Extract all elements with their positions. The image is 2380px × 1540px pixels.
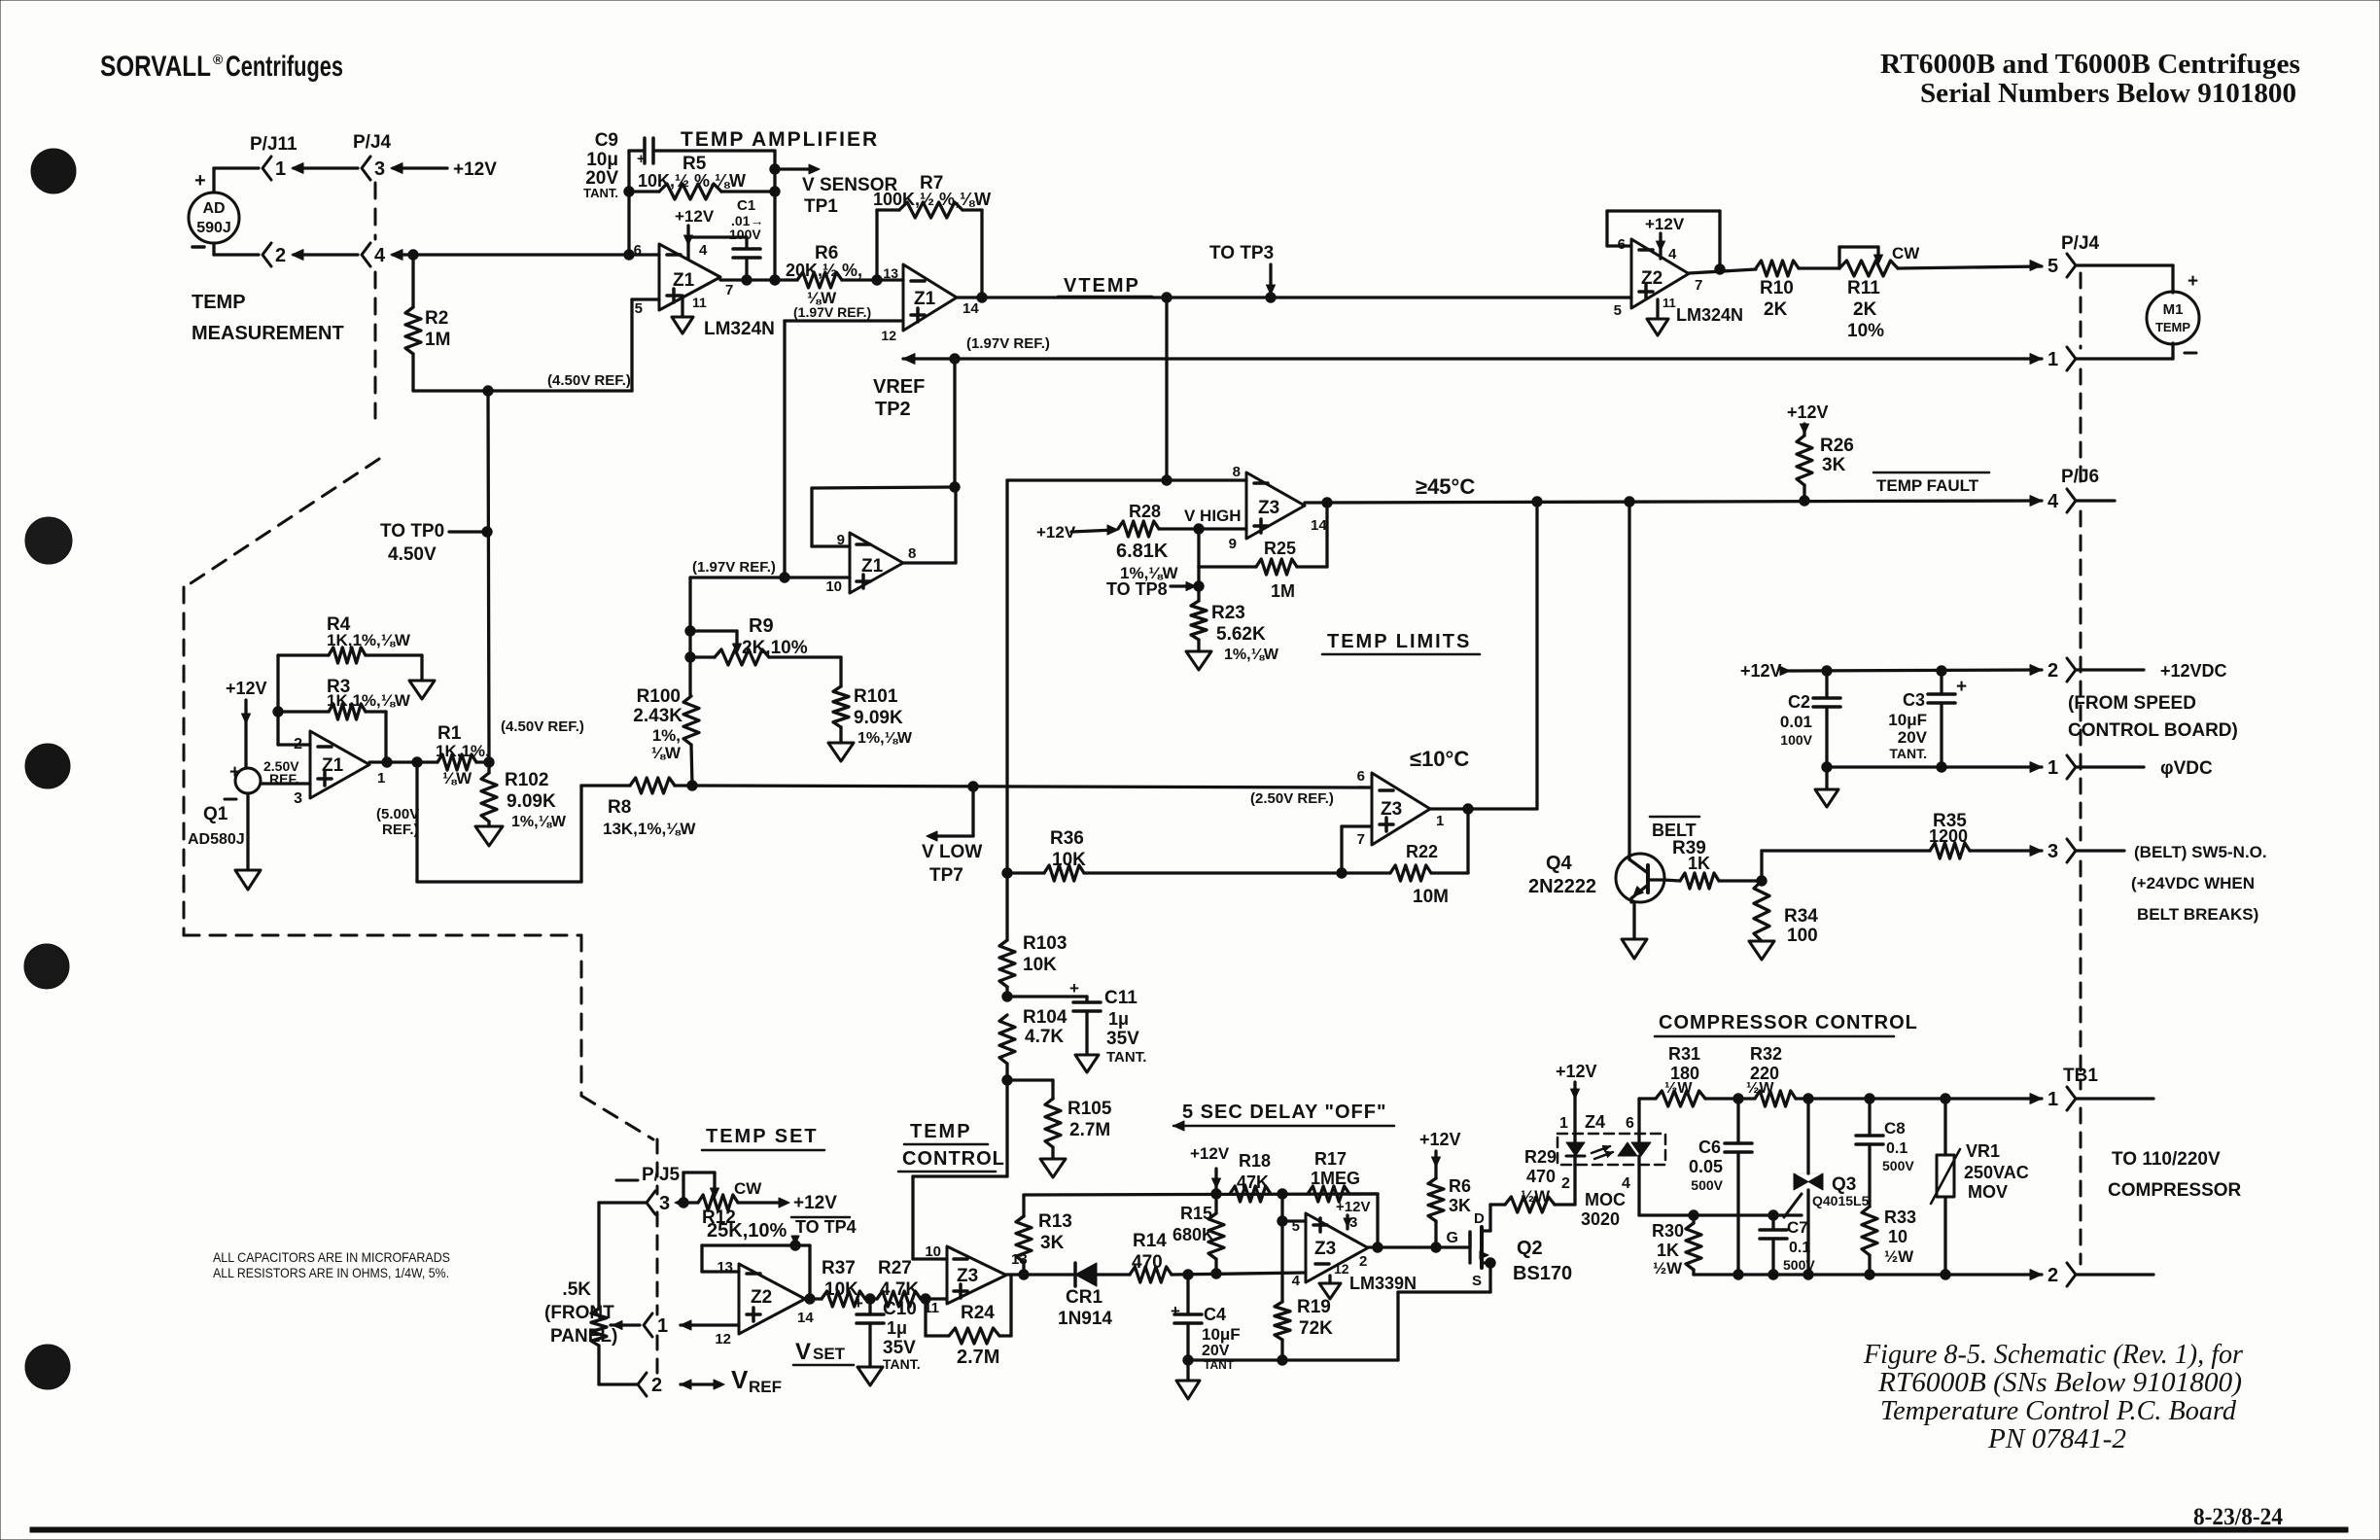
svg-text:1M: 1M	[425, 330, 450, 350]
svg-text:20K,½ %,: 20K,½ %,	[786, 261, 862, 280]
svg-text:1: 1	[2047, 757, 2058, 779]
wire Z1d pin10 1.97 input	[690, 576, 850, 578]
svg-text:1M: 1M	[1271, 581, 1295, 601]
svg-text:2N2222: 2N2222	[1528, 876, 1596, 897]
svg-text:TEMP: TEMP	[2155, 320, 2190, 334]
wire Z3b pin7 feedback	[1342, 824, 1372, 827]
svg-text:CW: CW	[1892, 244, 1920, 262]
label TEMP FAULT overlined	[1873, 472, 1989, 474]
svg-text:R28: R28	[1129, 502, 1161, 521]
svg-text:5.62K: 5.62K	[1216, 624, 1266, 645]
wire Z1 pin8 input	[1007, 478, 1246, 481]
svg-text:2: 2	[275, 245, 286, 266]
wire Z3d output	[1368, 1245, 1470, 1248]
svg-text:10K,½ %,⅛W: 10K,½ %,⅛W	[638, 171, 746, 191]
svg-text:2: 2	[651, 1375, 662, 1396]
triac Q3 Q4015L5	[1806, 1099, 1809, 1173]
svg-text:2: 2	[1561, 1175, 1570, 1192]
svg-text:2.7M: 2.7M	[1069, 1120, 1110, 1140]
svg-text:Centrifuges: Centrifuges	[226, 51, 343, 83]
svg-text:2.7M: 2.7M	[957, 1347, 999, 1368]
resistor R27	[877, 1291, 921, 1307]
svg-text:1μ: 1μ	[887, 1318, 907, 1338]
svg-text:(4.50V REF.): (4.50V REF.)	[547, 372, 631, 389]
wire Z1d output to loop	[903, 561, 956, 564]
svg-text:47K: 47K	[1237, 1172, 1269, 1192]
svg-text:1: 1	[377, 770, 385, 787]
connector P/J5 pin 1	[644, 1313, 652, 1337]
varistor VR1 MOV	[1943, 1099, 1946, 1155]
svg-text:13: 13	[883, 265, 898, 281]
svg-text:4: 4	[2047, 491, 2059, 512]
resistor R24 feedback	[924, 1299, 927, 1336]
connector P/J4 pin 1	[2030, 354, 2042, 365]
svg-text:6: 6	[634, 242, 642, 259]
svg-text:7: 7	[1695, 277, 1702, 294]
op-amp Z2b	[739, 1264, 805, 1334]
svg-text:R18: R18	[1239, 1151, 1271, 1171]
svg-text:+: +	[1956, 677, 1967, 697]
svg-text:3: 3	[294, 790, 302, 807]
svg-text:R31: R31	[1668, 1044, 1700, 1064]
svg-text:12: 12	[1334, 1261, 1349, 1277]
svg-text:6: 6	[1626, 1115, 1634, 1132]
svg-text:TEMP LIMITS: TEMP LIMITS	[1327, 631, 1471, 652]
svg-text:R100: R100	[637, 686, 681, 707]
svg-text:+12V: +12V	[226, 679, 267, 698]
svg-text:LM324N: LM324N	[1676, 305, 1743, 325]
ground at Q4 emitter	[1622, 939, 1647, 959]
svg-text:10μF: 10μF	[1202, 1325, 1241, 1344]
svg-text:S: S	[1472, 1273, 1482, 1289]
svg-text:1: 1	[2047, 349, 2058, 370]
dashed P/J4-P/J6-TB1 connector column right	[2080, 273, 2082, 348]
capacitor C4	[1186, 1275, 1189, 1314]
svg-text:COMPRESSOR CONTROL: COMPRESSOR CONTROL	[1659, 1012, 1918, 1033]
svg-text:+: +	[229, 762, 240, 783]
wire wired-or vertical	[1535, 502, 1538, 809]
resistor R100	[683, 696, 699, 745]
resistor R14 470	[1130, 1267, 1172, 1282]
svg-text:R2: R2	[425, 308, 448, 329]
potentiometer R11	[1839, 261, 1898, 276]
resistor R13 from top rail	[1022, 1195, 1025, 1216]
svg-text:35V: 35V	[883, 1338, 916, 1358]
svg-text:(FROM SPEED: (FROM SPEED	[2068, 693, 2196, 714]
svg-text:P/J6: P/J6	[2061, 467, 2099, 487]
svg-text:TANT.: TANT.	[583, 186, 618, 200]
bottom border line	[30, 1527, 2348, 1532]
svg-text:20V: 20V	[1202, 1343, 1230, 1359]
svg-text:TO TP4: TO TP4	[795, 1217, 857, 1237]
svg-text:1200: 1200	[1929, 826, 1968, 846]
svg-text:1%,: 1%,	[652, 726, 681, 745]
svg-text:4: 4	[374, 245, 386, 266]
resistor R33 10	[1862, 1207, 1877, 1255]
svg-text:TANT.: TANT.	[1889, 746, 1927, 761]
svg-text:TEMP AMPLIFIER: TEMP AMPLIFIER	[681, 128, 879, 151]
svg-text:TEMP: TEMP	[910, 1121, 972, 1142]
binder hole 5	[25, 1345, 70, 1389]
svg-text:®: ®	[213, 52, 224, 67]
wire Z2a output row	[1689, 269, 1756, 273]
svg-text:1%,⅛W: 1%,⅛W	[511, 814, 567, 830]
svg-text:25K,10%: 25K,10%	[707, 1220, 787, 1242]
wire Z1c output node	[369, 760, 437, 763]
svg-text:TB1: TB1	[2063, 1066, 2098, 1086]
wire temp fault rail	[1305, 501, 2042, 503]
svg-text:20V: 20V	[1898, 728, 1928, 747]
TO TP8 arrow	[1194, 581, 1204, 591]
svg-text:470: 470	[1132, 1252, 1163, 1273]
capacitor C2	[1825, 671, 1828, 698]
svg-text:RT6000B and T6000B Centrifuges: RT6000B and T6000B Centrifuges	[1880, 49, 2300, 80]
svg-text:M1: M1	[2163, 301, 2184, 318]
svg-text:R17: R17	[1314, 1149, 1347, 1169]
resistor R3 feedback	[278, 710, 329, 713]
dashed P/J5 connector column	[656, 1139, 659, 1194]
resistor R34 to ground	[1754, 881, 1769, 941]
resistor R32 220	[1755, 1091, 1796, 1106]
svg-text:0.01: 0.01	[1780, 713, 1812, 731]
svg-text:+12V: +12V	[793, 1193, 837, 1213]
svg-text:12: 12	[881, 328, 896, 343]
svg-text:14: 14	[797, 1310, 814, 1326]
svg-text:P/J11: P/J11	[250, 134, 297, 155]
svg-text:1K: 1K	[1657, 1241, 1679, 1260]
svg-text:10μ: 10μ	[586, 150, 618, 170]
wire opto pin4 down	[1637, 1156, 1640, 1215]
wire Z2b output	[805, 1297, 822, 1300]
svg-text:3K: 3K	[1040, 1233, 1065, 1253]
svg-text:680K: 680K	[1172, 1225, 1214, 1244]
wire M1 return	[2171, 343, 2174, 359]
svg-text:G: G	[1447, 1230, 1458, 1246]
svg-text:R34: R34	[1784, 906, 1818, 927]
svg-text:VREF: VREF	[873, 376, 925, 398]
svg-text:+12V: +12V	[1645, 215, 1685, 233]
svg-text:½W: ½W	[1653, 1259, 1683, 1277]
wire VREF 1.97V rail	[903, 354, 915, 365]
svg-text:ALL CAPACITORS ARE IN MICROFAR: ALL CAPACITORS ARE IN MICROFARADS	[213, 1249, 450, 1265]
wire bottom return	[1188, 1358, 1398, 1361]
svg-text:R24: R24	[961, 1303, 995, 1323]
dashed boundary diagonal to P/J5	[581, 1096, 653, 1139]
wire Z3b output	[1430, 807, 1537, 810]
svg-text:3K: 3K	[1822, 455, 1846, 475]
resistor R35	[1930, 843, 1970, 858]
front panel 5K pot	[597, 1203, 600, 1309]
svg-text:500V: 500V	[1691, 1177, 1723, 1193]
svg-text:+: +	[637, 151, 646, 167]
resistor R1	[437, 754, 476, 770]
svg-text:R29: R29	[1524, 1147, 1557, 1167]
svg-text:R9: R9	[749, 615, 774, 637]
resistor R39	[1663, 880, 1680, 881]
svg-text:3020: 3020	[1581, 1209, 1620, 1229]
svg-text:590J: 590J	[196, 220, 231, 236]
dashed boundary lower vertical	[580, 935, 583, 1096]
svg-text:Q1: Q1	[203, 804, 228, 824]
svg-text:R8: R8	[608, 797, 631, 818]
svg-text:P/J4: P/J4	[353, 132, 392, 153]
svg-text:V: V	[731, 1365, 749, 1394]
svg-text:Z3: Z3	[1381, 799, 1402, 820]
svg-text:½W: ½W	[1746, 1080, 1774, 1097]
wire riser to Z1a pin 5	[630, 299, 633, 391]
svg-text:+: +	[854, 1294, 863, 1312]
resistor R103	[1005, 873, 1008, 940]
svg-text:Q4015L5: Q4015L5	[1812, 1193, 1870, 1208]
svg-text:R27: R27	[878, 1258, 912, 1278]
capacitor C9 feedback	[627, 151, 630, 255]
svg-text:7: 7	[1357, 831, 1365, 848]
dashed boundary bottom horizontal	[184, 934, 581, 937]
svg-text:6.81K: 6.81K	[1116, 541, 1169, 562]
wire VTEMP output	[957, 296, 1631, 298]
svg-text:4: 4	[1292, 1273, 1301, 1289]
svg-text:1%,⅛W: 1%,⅛W	[857, 730, 913, 747]
svg-text:MEASUREMENT: MEASUREMENT	[192, 323, 344, 344]
svg-text:V LOW: V LOW	[922, 842, 982, 862]
svg-text:C1: C1	[737, 197, 755, 214]
svg-text:SORVALL: SORVALL	[100, 51, 211, 83]
ground at Z2a pin 11	[1656, 299, 1659, 319]
svg-text:35V: 35V	[1106, 1029, 1139, 1049]
ground at C2	[1825, 767, 1828, 789]
ground at C10	[857, 1367, 883, 1385]
V LOW TP7 arrow	[971, 787, 974, 836]
ground below Q1	[246, 793, 249, 870]
capacitor C1	[688, 235, 747, 238]
svg-text:AD580J: AD580J	[188, 831, 245, 848]
op-amp Z3d 5sec	[1306, 1213, 1368, 1282]
svg-text:R26: R26	[1820, 436, 1854, 456]
svg-text:3: 3	[1349, 1214, 1357, 1231]
wire to M1 motor temp	[2076, 263, 2173, 266]
potentiometer R12	[679, 1201, 698, 1204]
svg-text:+: +	[2187, 271, 2198, 292]
svg-text:7: 7	[725, 282, 733, 298]
resistor R7 feedback	[872, 275, 882, 285]
wire 4.50V ref horizontal	[413, 389, 632, 392]
resistor R22 feedback	[1390, 865, 1431, 881]
svg-text:REF: REF	[749, 1378, 782, 1396]
resistor R36	[1007, 871, 1044, 874]
opto LED	[1566, 1142, 1585, 1156]
resistor R102 to ground	[487, 762, 490, 773]
svg-text:8: 8	[1233, 464, 1241, 480]
wire Z1c pin2 left leg	[278, 743, 310, 746]
label P/J5	[616, 1179, 638, 1182]
svg-text:1K,1%,: 1K,1%,	[436, 742, 490, 760]
svg-text:Z4: Z4	[1585, 1112, 1605, 1132]
svg-text:R15: R15	[1180, 1204, 1212, 1223]
wire Z2b feedback box	[702, 1270, 739, 1273]
svg-text:TANT.: TANT.	[883, 1356, 921, 1372]
wire Z1a output	[720, 278, 775, 281]
capacitor C8 snubber	[1868, 1099, 1871, 1136]
svg-text:TP1: TP1	[804, 196, 838, 217]
dashed boundary P/J4 column	[374, 183, 377, 239]
svg-text:BELT BREAKS): BELT BREAKS)	[2137, 905, 2258, 924]
wire into pin3 from left	[599, 1201, 647, 1204]
svg-text:5 SEC DELAY "OFF": 5 SEC DELAY "OFF"	[1182, 1102, 1386, 1123]
svg-text:10K: 10K	[1052, 850, 1086, 870]
svg-text:10%: 10%	[1847, 321, 1884, 341]
svg-text:LM324N: LM324N	[704, 319, 775, 339]
op-amp Z2a	[1631, 239, 1689, 308]
svg-text:(1.97V REF.): (1.97V REF.)	[966, 335, 1050, 352]
connector P/J4 pin 4	[362, 243, 370, 266]
svg-text:1: 1	[275, 158, 286, 180]
svg-text:R14: R14	[1133, 1231, 1167, 1251]
resistor R23 to ground	[1197, 567, 1200, 601]
wire pin1 to Z2b noninverting	[681, 1323, 739, 1326]
svg-text:8: 8	[908, 545, 916, 562]
svg-text:VTEMP: VTEMP	[1064, 275, 1140, 297]
svg-text:CONTROL BOARD): CONTROL BOARD)	[2068, 720, 2238, 741]
svg-text:+: +	[1069, 979, 1079, 997]
svg-text:CONTROL: CONTROL	[902, 1148, 1005, 1170]
svg-text:2.43K: 2.43K	[633, 706, 682, 726]
svg-text:R103: R103	[1023, 933, 1067, 954]
svg-text:Q3: Q3	[1832, 1174, 1856, 1195]
svg-text:ALL RESISTORS ARE IN OHMS, 1/4: ALL RESISTORS ARE IN OHMS, 1/4W, 5%.	[213, 1265, 449, 1280]
dashed boundary diagonal upper	[185, 459, 379, 587]
svg-text:TEMP: TEMP	[192, 292, 246, 313]
svg-text:≤10°C: ≤10°C	[1410, 747, 1469, 771]
svg-text:PN 07841-2: PN 07841-2	[1987, 1423, 2126, 1454]
svg-text:(+24VDC WHEN: (+24VDC WHEN	[2131, 874, 2255, 892]
svg-text:14: 14	[1311, 517, 1327, 534]
op-amp Z3c	[947, 1246, 1006, 1304]
svg-text:R105: R105	[1067, 1099, 1112, 1119]
op-amp Z1a	[659, 244, 720, 310]
wire pin2 to P/J4 pin4	[294, 253, 358, 256]
svg-text:(1.97V REF.): (1.97V REF.)	[692, 559, 776, 576]
svg-text:10K: 10K	[1023, 955, 1057, 975]
wire VTEMP drop vertical	[1005, 480, 1008, 873]
svg-text:D: D	[1474, 1210, 1485, 1227]
svg-text:+12V: +12V	[1740, 661, 1782, 681]
wire pin5 junction	[1280, 1194, 1283, 1221]
svg-text:R11: R11	[1847, 278, 1880, 298]
svg-text:TEMP SET: TEMP SET	[706, 1126, 819, 1147]
svg-text:½W: ½W	[1521, 1187, 1551, 1206]
svg-text:SET: SET	[813, 1345, 846, 1363]
svg-text:1μ: 1μ	[1108, 1009, 1129, 1029]
wire 1.97 node vertical	[688, 577, 691, 696]
wire R2 to 4.50V ref node	[411, 354, 414, 391]
svg-text:Z2: Z2	[751, 1287, 772, 1308]
svg-text:5: 5	[1292, 1218, 1300, 1235]
wire compressor bottom rail	[1694, 1273, 2042, 1276]
transistor Q4 2N2222	[1616, 854, 1664, 902]
resistor R5 feedback	[624, 187, 634, 196]
resistor R37	[822, 1291, 865, 1307]
wire +12V into pin 3	[393, 166, 447, 169]
comparator Z3a >=45C	[1246, 472, 1305, 539]
wire pin1 to P/J4 pin3	[294, 166, 358, 169]
svg-text:+12V: +12V	[453, 159, 497, 180]
connector P/J5 pin 3	[647, 1191, 655, 1214]
wire temp fault to Q4 collector	[1627, 502, 1630, 855]
comparator Z3b <=10C	[1372, 773, 1430, 845]
wire AD590 plus to P/J11 pin1	[212, 168, 215, 192]
svg-text:Serial Numbers Below 9101800: Serial Numbers Below 9101800	[1920, 78, 2296, 109]
svg-text:1: 1	[2047, 1089, 2058, 1110]
svg-text:5: 5	[635, 300, 643, 317]
svg-text:BS170: BS170	[1513, 1263, 1572, 1284]
svg-text:R33: R33	[1884, 1207, 1916, 1227]
svg-text:2K: 2K	[1764, 299, 1788, 320]
svg-text:5: 5	[1614, 302, 1622, 319]
svg-text:V: V	[795, 1339, 811, 1365]
connector P/J6 pin 1	[2030, 762, 2042, 773]
connector P/J6 pin 3	[2030, 846, 2042, 857]
svg-text:100V: 100V	[729, 227, 761, 242]
svg-text:C7: C7	[1787, 1218, 1808, 1237]
wire Z1b pin12 from 1.97 riser	[785, 319, 903, 322]
resistor R19 72K	[1275, 1302, 1290, 1340]
svg-text:½W: ½W	[1884, 1247, 1914, 1266]
wire R17 to output	[1349, 1192, 1378, 1195]
svg-text:Figure 8-5. Schematic (Rev. 1: Figure 8-5. Schematic (Rev. 1), for	[1863, 1339, 2244, 1370]
dashed boundary left vertical	[183, 587, 186, 935]
transistor Q2 BS170 mosfet	[1468, 1232, 1471, 1247]
wire Z1d buffer loop	[953, 359, 956, 487]
svg-text:2: 2	[1359, 1253, 1367, 1270]
V SENSOR TP1 arrow	[775, 167, 815, 170]
svg-text:+12V: +12V	[1419, 1130, 1461, 1149]
svg-text:5: 5	[2047, 256, 2058, 277]
connector P/J6 pin 2	[2030, 665, 2042, 676]
svg-text:CW: CW	[734, 1179, 762, 1198]
op-amp Z1d	[850, 533, 903, 593]
resistor R31 180	[1639, 1097, 1656, 1100]
svg-text:1K,1%,⅛W: 1K,1%,⅛W	[327, 631, 411, 649]
connector P/J5 pin 2	[599, 1382, 638, 1385]
svg-text:Temperature Control P.C. Board: Temperature Control P.C. Board	[1880, 1395, 2236, 1426]
resistor R101 to ground	[839, 657, 842, 686]
svg-text:2: 2	[2047, 1265, 2058, 1286]
connector P/J11 pin 1	[262, 157, 271, 180]
connector P/J4 pin 3	[362, 157, 370, 180]
svg-text:3: 3	[2047, 841, 2058, 862]
diode CR1 1N914	[1069, 1273, 1097, 1276]
svg-text:.5K: .5K	[562, 1279, 591, 1300]
svg-text:1%,⅛W: 1%,⅛W	[1224, 647, 1279, 663]
svg-text:MOV: MOV	[1968, 1182, 2008, 1202]
svg-text:1: 1	[657, 1315, 668, 1337]
svg-text:P/J5: P/J5	[642, 1165, 681, 1185]
svg-text:R19: R19	[1297, 1297, 1331, 1317]
resistor R10	[1756, 261, 1799, 276]
svg-text:2K: 2K	[1853, 299, 1877, 320]
svg-text:Z3: Z3	[1314, 1239, 1336, 1259]
connector P/J11 pin 2	[262, 243, 271, 266]
optoisolator Z4 MOC3020	[1557, 1134, 1665, 1165]
svg-text:500V: 500V	[1882, 1158, 1914, 1173]
svg-text:φVDC: φVDC	[2160, 758, 2213, 779]
binder hole 3	[25, 744, 70, 788]
label BELT overlined	[1650, 816, 1699, 819]
svg-text:½W: ½W	[1664, 1080, 1693, 1097]
ground at Z1a pin 11	[681, 296, 683, 317]
svg-text:R32: R32	[1750, 1044, 1782, 1064]
svg-text:1K,1%,⅛W: 1K,1%,⅛W	[327, 691, 411, 710]
